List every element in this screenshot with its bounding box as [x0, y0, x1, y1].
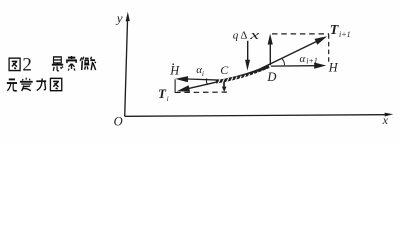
Ti arrowhead — [177, 85, 190, 92]
svg-text:D: D — [266, 70, 276, 84]
left H arrowhead — [175, 76, 188, 82]
wire: top dashed construction line — [272, 33, 329, 35]
x-axis — [125, 115, 386, 117]
right H arrow shaft — [271, 65, 315, 67]
svg-text:O: O — [114, 114, 123, 128]
svg-text:α: α — [300, 53, 306, 65]
char shou (bear) line2 — [20, 78, 33, 91]
wire: left H arrow shaft — [187, 79, 222, 80]
char tu (figure) line1 — [9, 58, 20, 70]
right H arrowhead — [314, 63, 326, 69]
svg-text:y: y — [115, 11, 123, 26]
svg-text:i: i — [202, 69, 204, 78]
char suo (rope) line1 — [66, 56, 77, 71]
vertical component arrow at C — [223, 81, 225, 88]
char tu (figure) line2 — [50, 78, 61, 90]
svg-text:i+1: i+1 — [306, 57, 318, 66]
svg-text:Δ: Δ — [240, 30, 247, 42]
cable hatching ticks — [218, 69, 267, 84]
svg-text:i+1: i+1 — [339, 30, 351, 39]
angle arc alpha_i — [206, 78, 207, 85]
tension Ti+1 line — [261, 41, 317, 68]
caption figure 2 chinese — [7, 56, 96, 91]
svg-text:H: H — [169, 64, 180, 78]
Ti+1 arrowhead — [315, 36, 328, 44]
char yuan (element) line2 — [7, 79, 17, 90]
qDx load arrow — [247, 41, 249, 61]
y-axis arrowhead — [126, 12, 130, 22]
svg-text:H: H — [328, 60, 339, 74]
vertical component arrow at D — [269, 43, 271, 65]
svg-text:x: x — [249, 28, 260, 42]
char li (force) line2 — [36, 78, 46, 90]
y-axis — [125, 21, 128, 117]
x-axis arrowhead — [385, 113, 394, 117]
wire: left vertical parallelogram edge — [174, 79, 176, 92]
cable element band C to D — [216, 66, 269, 82]
tension Ti line — [185, 80, 228, 90]
char wei (micro) line1 — [80, 57, 96, 70]
wire: bottom dashed construction line — [175, 91, 227, 93]
svg-text:i: i — [167, 94, 169, 103]
angle arc alpha_i+1 — [282, 58, 285, 65]
wire: right dashed vertical — [328, 34, 330, 62]
svg-text:2: 2 — [22, 54, 32, 75]
svg-text:C: C — [220, 63, 229, 77]
char xuan (hang) line1 — [52, 57, 63, 71]
svg-text:x: x — [382, 113, 389, 127]
svg-text:q: q — [233, 29, 239, 41]
